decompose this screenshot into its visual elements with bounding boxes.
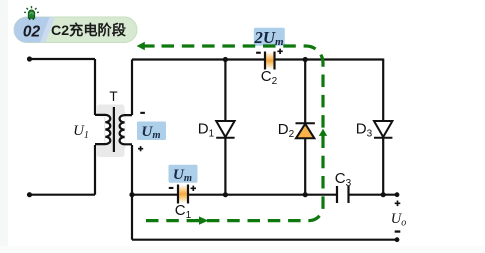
- transformer T1 body highlight: [97, 105, 126, 158]
- node label Um secondary box: [137, 122, 166, 141]
- capacitor C1 plates: [178, 185, 188, 204]
- svg-text:C3: C3: [335, 170, 352, 189]
- wire D1 anode: [224, 60, 226, 123]
- title badge pill: [14, 17, 137, 43]
- node junction D3 bottom: [381, 192, 386, 197]
- wire top rail right of C2: [275, 58, 383, 60]
- wire bottom rail C1 to C3: [189, 194, 337, 196]
- wire primary top horizontal: [30, 58, 96, 60]
- svg-text:D3: D3: [356, 121, 373, 140]
- node junction D2 top: [303, 57, 308, 62]
- wire D2 cathode top: [304, 60, 306, 124]
- output minus sign: [395, 230, 401, 232]
- terminal dot input bottom: [27, 192, 32, 197]
- secondary plus sign: [138, 146, 143, 151]
- wire secondary bottom vertical: [131, 145, 133, 195]
- node junction D1 top: [223, 57, 228, 62]
- svg-text:D2: D2: [278, 121, 295, 140]
- terminal dot output plus: [395, 192, 400, 197]
- terminal dot output minus: [395, 237, 400, 242]
- capacitor C1 minus: [169, 187, 174, 189]
- capacitor C2 plus: [277, 49, 282, 54]
- transformer core: [113, 107, 115, 152]
- wire bottom rail right of C3: [350, 194, 398, 196]
- wire output bottom vertical: [131, 195, 133, 240]
- current arrow up (right segment): [319, 129, 327, 136]
- LED icon: [24, 6, 39, 20]
- terminal dot input top: [27, 56, 32, 61]
- capacitor C2 glow: [266, 52, 273, 69]
- svg-text:Uo: Uo: [391, 211, 406, 229]
- wire D1 cathode: [224, 138, 226, 195]
- node label 2Um box: [254, 28, 285, 46]
- svg-text:C2: C2: [261, 68, 278, 87]
- diode D2 conducting: [296, 123, 315, 138]
- wire output bottom horizontal: [132, 239, 397, 241]
- svg-text:T: T: [109, 89, 117, 104]
- capacitor C1 glow: [179, 185, 187, 203]
- node label Um C1 box: [169, 165, 198, 183]
- wire primary bottom horizontal: [30, 194, 96, 196]
- wire secondary top vertical: [131, 60, 133, 116]
- transformer secondary winding: [120, 115, 125, 144]
- wire top rail left of C2: [132, 58, 265, 60]
- capacitor C1 plus: [191, 186, 196, 191]
- svg-text:C1: C1: [175, 202, 192, 221]
- wire primary bottom vertical: [94, 145, 96, 195]
- svg-text:C2充电阶段: C2充电阶段: [51, 22, 127, 39]
- current arrow left (top segment): [137, 42, 145, 50]
- transformer primary winding: [105, 115, 110, 144]
- svg-text:D1: D1: [198, 121, 215, 140]
- diode D1: [216, 121, 234, 138]
- node junction D2 bottom: [303, 192, 308, 197]
- capacitor C3 plates: [337, 186, 349, 203]
- wire D2 anode bottom: [304, 138, 306, 194]
- svg-text:U1: U1: [73, 123, 89, 141]
- svg-text:02: 02: [23, 24, 41, 41]
- node junction secondary bottom: [129, 192, 134, 197]
- capacitor C2 minus: [256, 52, 261, 54]
- current arrow right (bottom segment): [199, 216, 208, 224]
- wire D3 anode: [382, 59, 384, 123]
- wire bottom rail left of C1: [132, 194, 178, 196]
- node junction D1 bottom: [223, 192, 228, 197]
- diode D3: [374, 121, 392, 138]
- secondary minus sign: [140, 112, 145, 114]
- wire D3 cathode: [382, 138, 384, 195]
- wire primary top vertical: [94, 59, 96, 115]
- current loop dashed path: [146, 46, 323, 221]
- capacitor C2 plates: [265, 52, 275, 70]
- output plus sign: [395, 201, 401, 207]
